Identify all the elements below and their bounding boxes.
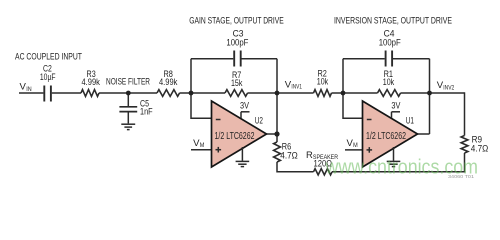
op-amp U1 plus sign (367, 147, 373, 153)
svg-text:4.7Ω: 4.7Ω (471, 143, 489, 154)
node A input stage 1 (189, 91, 194, 96)
svg-text:INV1: INV1 (291, 85, 302, 91)
wire VM to U2 plus input (191, 149, 212, 151)
resistor R9 (461, 136, 468, 153)
wire R9 bottom to bottom rail (464, 153, 466, 173)
svg-text:M: M (200, 143, 205, 149)
wire R7 to R2 (through VINV1 node) (248, 92, 314, 94)
ground bars U2 (236, 161, 250, 166)
svg-text:100pF: 100pF (226, 38, 248, 49)
wire C2 to R3 (52, 92, 81, 94)
3V supply stub U2 (241, 112, 250, 118)
svg-text:100pF: 100pF (379, 38, 401, 49)
node noise filter junction (126, 91, 131, 96)
wire feedback right side stage 2 (429, 59, 431, 134)
wire C4 top row left (343, 58, 385, 60)
ground stem U1 (393, 147, 395, 161)
svg-text:3V: 3V (240, 101, 250, 111)
wire U2 output to node (267, 133, 278, 135)
svg-text:15k: 15k (231, 78, 243, 89)
op-amp U2 (212, 101, 267, 167)
ground for C5 (121, 124, 135, 129)
wire C3 top row right (242, 58, 278, 60)
svg-text:3V: 3V (391, 101, 401, 111)
resistor R3 (81, 90, 99, 97)
svg-text:www.cntronics.com: www.cntronics.com (325, 157, 478, 179)
svg-text:10µF: 10µF (40, 72, 56, 83)
wire node A up to C3 row (190, 59, 192, 93)
svg-text:INVERSION STAGE, OUTPUT DRIVE: INVERSION STAGE, OUTPUT DRIVE (334, 16, 452, 27)
resistor R2 (314, 90, 332, 97)
wire bottom rail left segment (277, 171, 314, 173)
svg-text:U1: U1 (406, 116, 414, 127)
op-amp U1 minus sign (367, 119, 372, 121)
node B input stage 2 (341, 91, 346, 96)
wire node B up to C4 row (342, 59, 344, 93)
wire C3 top row left (191, 58, 233, 60)
svg-text:1/2 LTC6262: 1/2 LTC6262 (366, 131, 406, 142)
svg-text:4.7Ω: 4.7Ω (280, 151, 298, 162)
svg-text:NOISE FILTER: NOISE FILTER (106, 77, 150, 88)
wire R2 to node B (332, 92, 378, 94)
resistor RSPEAKER (314, 169, 333, 175)
resistor R7 (225, 90, 248, 97)
node VINV1 (275, 91, 280, 96)
op-amp U1 (363, 101, 418, 167)
resistor R6 (274, 142, 281, 162)
3V supply stub U1 (392, 112, 401, 118)
svg-text:GAIN STAGE, OUTPUT DRIVE: GAIN STAGE, OUTPUT DRIVE (189, 16, 283, 27)
svg-text:10k: 10k (317, 77, 329, 88)
wire VIN to C2 (19, 92, 43, 94)
capacitor C2 (44, 86, 51, 102)
svg-text:1/2 LTC6262: 1/2 LTC6262 (215, 131, 255, 142)
ground bars U1 (387, 161, 401, 166)
capacitor C3 (234, 51, 241, 67)
node VINV2 (427, 91, 432, 96)
wire R3 to R8 (through noise-filter node) (99, 92, 157, 94)
wire feedback right side stage 1 (276, 59, 278, 134)
capacitor C5 (119, 93, 137, 123)
wire node B down to inverting input U1 (343, 93, 363, 118)
wire U1 output to node (418, 133, 430, 135)
svg-text:R: R (306, 150, 313, 161)
svg-text:1nF: 1nF (140, 107, 153, 118)
wire R6 bottom (276, 162, 278, 173)
svg-text:M: M (353, 143, 358, 149)
resistor R1 (378, 90, 401, 97)
svg-text:U2: U2 (255, 116, 263, 127)
wire R8 to node A (180, 92, 226, 94)
capacitor C4 (386, 51, 393, 67)
wire bottom rail right segment (332, 171, 465, 173)
wire node A down to inverting input U2 (191, 93, 212, 118)
wire R1 to R9 corner (401, 92, 465, 94)
ground stem U2 (241, 147, 243, 161)
wire C4 top row right (393, 58, 430, 60)
node U2 output (274, 131, 279, 136)
resistor R8 (157, 90, 180, 97)
svg-text:10k: 10k (383, 77, 395, 88)
wire VM to U1 plus input (345, 149, 363, 151)
op-amp U2 minus sign (216, 119, 221, 121)
svg-text:4.99k: 4.99k (82, 77, 101, 88)
svg-text:INV2: INV2 (443, 85, 455, 91)
wire VINV2 row down to R9 (464, 92, 466, 135)
svg-text:4.99k: 4.99k (159, 77, 178, 88)
svg-text:IN: IN (26, 87, 31, 93)
op-amp U2 plus sign (216, 147, 222, 153)
wire R6 top (276, 134, 278, 142)
svg-text:AC COUPLED INPUT: AC COUPLED INPUT (15, 52, 82, 63)
